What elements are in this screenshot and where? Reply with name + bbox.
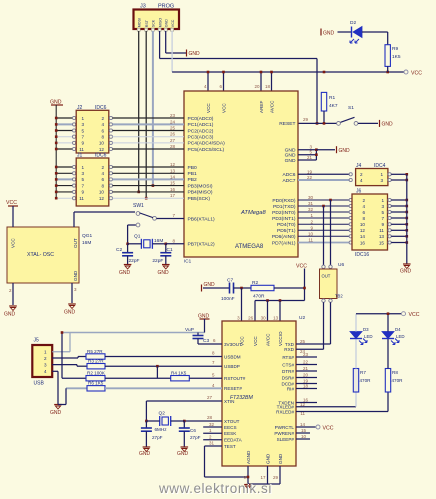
svg-text:21: 21 (303, 366, 309, 371)
svg-text:10: 10 (99, 141, 105, 146)
svg-text:VCC: VCC (11, 238, 16, 248)
svg-text:4: 4 (362, 204, 365, 209)
svg-text:12: 12 (170, 162, 176, 167)
svg-text:8: 8 (101, 135, 104, 140)
svg-text:10: 10 (308, 231, 314, 236)
svg-text:13: 13 (379, 234, 385, 239)
svg-text:470R: 470R (360, 378, 372, 383)
svg-text:27: 27 (170, 138, 176, 143)
svg-text:3: 3 (381, 204, 384, 209)
svg-text:3: 3 (44, 362, 47, 367)
svg-text:MISO: MISO (158, 18, 162, 27)
svg-text:J2: J2 (77, 105, 83, 111)
svg-text:30: 30 (261, 316, 267, 321)
svg-text:AVCC: AVCC (270, 100, 275, 113)
svg-text:5: 5 (381, 210, 384, 215)
svg-text:ATMega8: ATMega8 (240, 210, 266, 216)
svg-text:CTS#: CTS# (282, 362, 294, 367)
svg-text:R4 1K5: R4 1K5 (171, 370, 187, 375)
svg-text:29: 29 (303, 117, 309, 122)
svg-text:VCC: VCC (222, 103, 227, 113)
svg-text:21: 21 (307, 155, 313, 160)
svg-text:VCC: VCC (411, 71, 422, 77)
svg-text:R7: R7 (360, 370, 366, 375)
svg-text:ADC7: ADC7 (282, 178, 295, 184)
svg-text:26: 26 (248, 316, 254, 321)
svg-text:AGND: AGND (246, 450, 251, 464)
svg-text:PB4(MISO): PB4(MISO) (188, 190, 213, 196)
svg-text:1: 1 (380, 172, 383, 177)
svg-text:RXLED#: RXLED# (276, 409, 294, 414)
svg-text:18: 18 (303, 384, 309, 389)
svg-text:26: 26 (170, 132, 176, 137)
svg-text:VuP: VuP (185, 327, 194, 333)
svg-text:PC3(ADC3): PC3(ADC3) (188, 135, 214, 141)
svg-text:Q1: Q1 (134, 234, 141, 240)
svg-text:27pF: 27pF (152, 435, 163, 440)
svg-text:J4: J4 (356, 163, 362, 169)
svg-text:R8: R8 (392, 370, 398, 375)
svg-text:USBDM: USBDM (224, 354, 241, 359)
svg-text:PWRCTL: PWRCTL (275, 425, 295, 430)
svg-text:OUT: OUT (322, 274, 331, 279)
svg-text:25: 25 (300, 339, 306, 344)
svg-text:7: 7 (81, 135, 84, 140)
svg-text:DSR#: DSR# (282, 375, 295, 380)
svg-text:30: 30 (308, 195, 314, 200)
svg-text:PD0(RXD): PD0(RXD) (272, 198, 295, 204)
svg-text:GND: GND (400, 269, 412, 275)
svg-text:3: 3 (81, 171, 84, 176)
svg-text:GND: GND (164, 19, 168, 27)
svg-text:PB1: PB1 (188, 171, 198, 177)
svg-text:VCC: VCC (253, 336, 258, 346)
svg-text:23: 23 (303, 352, 309, 357)
svg-text:28: 28 (170, 144, 176, 149)
svg-text:FT232BM: FT232BM (230, 395, 253, 401)
svg-text:AREF: AREF (259, 101, 264, 113)
svg-text:R6 1K5: R6 1K5 (88, 380, 104, 385)
svg-text:12: 12 (360, 228, 366, 233)
svg-text:1: 1 (81, 165, 84, 170)
svg-text:IDC4: IDC4 (374, 163, 386, 169)
svg-text:IC1: IC1 (184, 259, 192, 264)
svg-text:28: 28 (207, 415, 213, 420)
svg-text:16: 16 (360, 240, 366, 245)
svg-text:1: 1 (81, 116, 84, 121)
svg-text:GND: GND (266, 453, 271, 464)
svg-text:9: 9 (81, 190, 84, 195)
svg-text:EECS: EECS (224, 425, 237, 430)
svg-text:10: 10 (360, 222, 366, 227)
svg-text:31: 31 (308, 201, 314, 206)
svg-text:Q2: Q2 (159, 411, 166, 417)
svg-text:GND: GND (285, 158, 296, 164)
svg-text:PC0(ADC0): PC0(ADC0) (188, 116, 214, 122)
svg-text:GND: GND (4, 312, 16, 318)
svg-text:R9: R9 (392, 46, 398, 52)
svg-text:2: 2 (362, 198, 365, 203)
svg-text:R2 100K: R2 100K (87, 370, 106, 375)
svg-text:9: 9 (381, 222, 384, 227)
svg-text:PC1(ADC1): PC1(ADC1) (188, 122, 214, 128)
svg-text:PD7(AIN1): PD7(AIN1) (272, 240, 296, 246)
svg-text:C2: C2 (116, 247, 122, 253)
svg-text:13: 13 (273, 316, 279, 321)
svg-text:ATMEGA8: ATMEGA8 (235, 244, 264, 250)
svg-text:8: 8 (362, 216, 365, 221)
svg-text:4: 4 (101, 122, 104, 127)
svg-text:22pF: 22pF (152, 258, 163, 264)
svg-text:2: 2 (101, 116, 104, 121)
svg-text:27pF: 27pF (190, 435, 201, 440)
svg-text:100nF: 100nF (221, 296, 235, 302)
svg-text:6: 6 (362, 210, 365, 215)
svg-text:29: 29 (273, 475, 279, 480)
svg-text:19: 19 (307, 169, 313, 174)
svg-text:1: 1 (44, 350, 47, 355)
svg-text:www.elektronik.si: www.elektronik.si (158, 481, 272, 496)
svg-text:TXD: TXD (285, 342, 295, 347)
svg-text:10: 10 (301, 434, 307, 439)
svg-text:32: 32 (308, 207, 314, 212)
svg-text:5: 5 (81, 128, 84, 133)
svg-text:R1: R1 (329, 95, 335, 101)
svg-text:24: 24 (170, 119, 176, 124)
svg-text:PC4(ADC4/SDA): PC4(ADC4/SDA) (188, 141, 226, 147)
svg-text:GND: GND (189, 51, 201, 57)
svg-text:RI#: RI# (287, 386, 295, 391)
svg-text:GND: GND (382, 122, 394, 128)
svg-text:LED: LED (396, 334, 405, 339)
svg-text:PB6(XTAL1): PB6(XTAL1) (188, 216, 215, 222)
svg-text:20: 20 (254, 84, 260, 89)
svg-text:SLEEP#: SLEEP# (277, 437, 295, 442)
svg-text:VCC: VCC (206, 103, 211, 113)
svg-text:GND: GND (64, 310, 76, 316)
svg-text:11: 11 (79, 196, 84, 201)
svg-text:470R: 470R (253, 294, 265, 300)
svg-text:470R: 470R (392, 378, 404, 383)
svg-text:RST: RST (145, 19, 149, 27)
svg-text:MOSI: MOSI (137, 18, 141, 27)
svg-text:23: 23 (170, 113, 176, 118)
svg-text:14: 14 (170, 174, 176, 179)
svg-text:R2: R2 (252, 280, 258, 286)
svg-text:16M: 16M (82, 240, 91, 246)
svg-text:C1: C1 (167, 247, 173, 253)
svg-text:16: 16 (170, 187, 176, 192)
svg-text:J3: J3 (140, 4, 146, 10)
svg-text:EEDATA: EEDATA (224, 438, 243, 443)
svg-text:7: 7 (381, 216, 384, 221)
svg-text:32: 32 (209, 422, 215, 427)
svg-text:D3: D3 (363, 327, 369, 332)
svg-text:GND: GND (285, 153, 296, 159)
svg-text:16M: 16M (154, 238, 163, 244)
svg-text:PD4(T0): PD4(T0) (277, 222, 296, 228)
svg-text:S1: S1 (348, 105, 354, 111)
svg-text:J5: J5 (34, 338, 40, 344)
svg-text:ADC6: ADC6 (282, 172, 295, 178)
svg-text:4K7: 4K7 (329, 103, 338, 109)
svg-text:15: 15 (170, 181, 176, 186)
svg-text:OUT: OUT (73, 238, 78, 248)
svg-text:VCC: VCC (323, 426, 334, 432)
svg-text:22: 22 (303, 360, 309, 365)
svg-text:VCC: VCC (6, 200, 17, 206)
svg-text:VCC: VCC (409, 312, 420, 318)
svg-text:12: 12 (99, 196, 105, 201)
svg-text:PB3(MOSI): PB3(MOSI) (188, 183, 213, 189)
svg-text:10: 10 (99, 190, 105, 195)
svg-text:QG1: QG1 (82, 233, 92, 239)
svg-text:20: 20 (303, 373, 309, 378)
svg-text:PD6(AIN0): PD6(AIN0) (272, 234, 296, 240)
svg-text:PROG: PROG (158, 4, 174, 10)
svg-text:J1: J1 (77, 153, 83, 159)
svg-text:DTR#: DTR# (282, 369, 294, 374)
svg-text:C7: C7 (227, 278, 233, 284)
svg-text:27: 27 (207, 395, 213, 400)
svg-text:PB5(SCK): PB5(SCK) (188, 196, 211, 202)
svg-text:IDC6: IDC6 (95, 105, 107, 111)
svg-text:IDC6: IDC6 (95, 153, 107, 159)
svg-text:USB: USB (34, 381, 45, 387)
svg-text:7: 7 (81, 183, 84, 188)
svg-text:6MHz: 6MHz (155, 427, 168, 432)
svg-text:TB2: TB2 (335, 294, 343, 299)
svg-text:PD1(TXD): PD1(TXD) (273, 204, 296, 210)
svg-text:PB0: PB0 (188, 165, 198, 171)
svg-text:PD2(INT0): PD2(INT0) (272, 210, 296, 216)
svg-text:GND: GND (139, 451, 151, 457)
svg-text:PC5(ADC5/SCL): PC5(ADC5/SCL) (188, 147, 225, 153)
svg-text:R5 27R: R5 27R (87, 349, 103, 354)
svg-text:RTS#: RTS# (282, 355, 294, 360)
svg-text:C3: C3 (203, 338, 209, 344)
svg-text:GND: GND (339, 148, 351, 154)
svg-text:GND: GND (204, 282, 216, 288)
svg-text:11: 11 (379, 228, 384, 233)
svg-text:VCC: VCC (296, 264, 307, 270)
svg-text:15: 15 (301, 428, 307, 433)
svg-text:2: 2 (360, 172, 363, 177)
svg-text:14: 14 (300, 422, 306, 427)
svg-text:GND: GND (158, 270, 170, 276)
svg-text:15: 15 (379, 240, 385, 245)
svg-text:TEST: TEST (224, 444, 236, 449)
svg-text:3: 3 (380, 178, 383, 183)
svg-text:PD5(T1): PD5(T1) (277, 228, 296, 234)
svg-text:J6: J6 (356, 189, 362, 195)
svg-text:PWREN#: PWREN# (274, 431, 294, 436)
svg-text:4: 4 (360, 178, 363, 183)
svg-text:PD3(INT1): PD3(INT1) (272, 216, 296, 222)
svg-text:25: 25 (170, 126, 176, 131)
svg-text:D2: D2 (350, 20, 356, 26)
svg-text:D4: D4 (395, 327, 401, 332)
svg-text:31: 31 (209, 441, 215, 446)
svg-text:GND: GND (323, 31, 335, 37)
svg-text:U2: U2 (299, 315, 305, 321)
svg-text:6: 6 (101, 177, 104, 182)
svg-text:11: 11 (79, 147, 84, 152)
svg-text:1: 1 (381, 198, 384, 203)
svg-text:13: 13 (170, 168, 176, 173)
svg-text:VCCIO: VCCIO (278, 331, 283, 346)
svg-text:GND: GND (73, 270, 78, 281)
svg-text:17: 17 (170, 193, 176, 198)
svg-text:18: 18 (265, 84, 271, 89)
svg-text:EESK: EESK (224, 431, 237, 436)
svg-text:4: 4 (101, 171, 104, 176)
svg-text:XTAL- OSC: XTAL- OSC (27, 252, 54, 258)
svg-text:LED: LED (364, 334, 373, 339)
svg-text:2: 2 (101, 165, 104, 170)
svg-text:11: 11 (308, 238, 313, 243)
svg-text:9: 9 (81, 141, 84, 146)
svg-text:RESET#: RESET# (224, 386, 242, 391)
svg-text:RESET: RESET (279, 121, 295, 127)
svg-text:1K5: 1K5 (392, 54, 401, 60)
svg-text:17: 17 (260, 475, 266, 480)
svg-text:8: 8 (101, 183, 104, 188)
svg-text:3: 3 (81, 122, 84, 127)
svg-text:14: 14 (360, 234, 366, 239)
svg-text:GND: GND (177, 451, 189, 457)
svg-text:R3 27R: R3 27R (88, 358, 104, 363)
svg-text:AVCC: AVCC (266, 333, 271, 346)
svg-text:GND: GND (278, 453, 283, 464)
svg-text:12: 12 (300, 402, 306, 407)
svg-text:22: 22 (307, 175, 313, 180)
svg-text:VCC: VCC (171, 19, 175, 27)
svg-text:SW1: SW1 (133, 203, 144, 209)
svg-text:4: 4 (44, 369, 47, 374)
svg-text:PC2(ADC2): PC2(ADC2) (188, 128, 214, 134)
svg-text:USBDP: USBDP (224, 364, 240, 369)
svg-text:12: 12 (99, 147, 105, 152)
svg-text:6: 6 (101, 128, 104, 133)
svg-text:2: 2 (44, 356, 47, 361)
svg-text:GND: GND (50, 410, 62, 416)
svg-text:11: 11 (300, 411, 305, 416)
svg-text:22pF: 22pF (129, 258, 140, 264)
svg-text:GND: GND (119, 270, 131, 276)
svg-text:3V3OUT: 3V3OUT (224, 342, 242, 347)
svg-text:XTOUT: XTOUT (224, 419, 240, 424)
svg-text:U6: U6 (338, 262, 344, 268)
svg-text:5: 5 (81, 177, 84, 182)
svg-text:PB2: PB2 (188, 177, 198, 183)
svg-text:SCK: SCK (152, 19, 156, 27)
svg-text:RXD: RXD (284, 347, 294, 352)
svg-text:RSTOUT#: RSTOUT# (224, 376, 246, 381)
svg-text:PB7(XTAL2): PB7(XTAL2) (188, 242, 215, 248)
svg-text:C6: C6 (190, 428, 196, 433)
svg-text:IDC16: IDC16 (355, 252, 369, 258)
